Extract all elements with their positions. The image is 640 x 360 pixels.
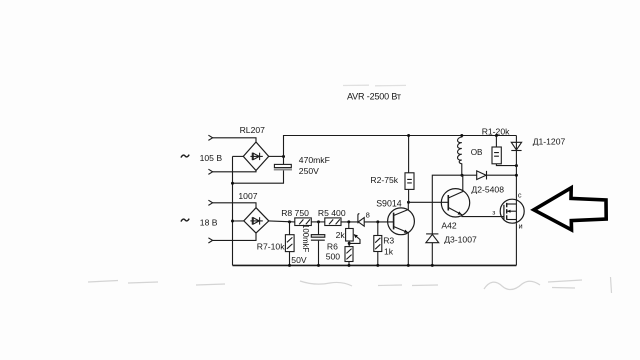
- bridge 1007 internal diode: [250, 217, 262, 224]
- AC input terminal arrow (low bridge, upper): [208, 200, 212, 205]
- wire bridge1 plus corner to capacitor node: [269, 155, 284, 157]
- wire node to D3 corner: [432, 175, 462, 234]
- resistor R8 750 box: [295, 218, 312, 226]
- resistor R7-10k box: [285, 235, 294, 252]
- diode D2-5408 triangle: [477, 171, 486, 180]
- node dot D2/drain junction: [515, 174, 518, 177]
- node dot bus/capacitor rail: [231, 182, 234, 185]
- resistor R5 400 box: [325, 218, 341, 226]
- transistor Q2 collector: [448, 175, 463, 198]
- wire R7 branch: [289, 222, 291, 266]
- transistor Q1 S9014 circle: [388, 208, 415, 235]
- svg-text:1007: 1007: [238, 191, 257, 201]
- wire C2 branch upper: [318, 222, 320, 235]
- MOSFET body stub: [507, 210, 517, 212]
- wire R3 branch upper: [377, 222, 379, 236]
- wire R3 to rail: [377, 252, 379, 266]
- MOSFET source stub: [507, 219, 517, 221]
- wire input4 to bridge 1007 bottom: [213, 233, 256, 240]
- wire C2 branch lower: [318, 241, 320, 266]
- wire left vertical bus: [232, 156, 234, 265]
- wire bridge1 minus corner to left bus: [233, 155, 244, 157]
- wire R8 to R5: [311, 221, 325, 223]
- transistor Q2 base bar: [447, 195, 449, 211]
- svg-text:R5 400: R5 400: [318, 208, 346, 218]
- wire bridge2 plus corner to R8: [269, 221, 295, 222]
- diode D1-1207 triangle: [511, 142, 521, 150]
- capacitor C1 470mkF top plate: [274, 164, 291, 167]
- svg-text:100mkF: 100mkF: [301, 224, 310, 252]
- node dot R7 top: [288, 220, 291, 223]
- faint erased-text smudge above title: [343, 84, 406, 87]
- node dot capacitor top: [282, 155, 285, 158]
- wire diode to base: [364, 221, 393, 223]
- MOSFET body arrowhead: [507, 210, 511, 213]
- diode D8 cathode bar with hook: [358, 214, 360, 224]
- svg-text:R2-75k: R2-75k: [370, 175, 398, 185]
- node dot R1/D1 junction: [515, 164, 518, 167]
- wire D3 anode to rail: [431, 243, 433, 266]
- wire source to rail: [515, 223, 517, 265]
- node dot rail D3: [431, 264, 434, 267]
- resistor R1-20k box: [492, 147, 501, 164]
- MOSFET channel segments: [506, 203, 508, 220]
- svg-text:AVR -2500 Вт: AVR -2500 Вт: [347, 92, 401, 102]
- diode D2-5408 cathode bar: [486, 171, 488, 180]
- bridge rectifier RL207 diamond: [243, 142, 268, 171]
- wire collector node to A42 base: [409, 201, 449, 203]
- wire drain line vertical: [515, 136, 517, 224]
- capacitor C1 470mkF bottom plate (gray): [274, 169, 292, 171]
- diode D8 triangle: [358, 218, 364, 227]
- wire input1 to bridge RL207 top: [213, 138, 256, 142]
- node dot wiper junction: [348, 242, 351, 245]
- wire R2 top from rail: [408, 136, 410, 173]
- svg-text:R6: R6: [327, 241, 338, 251]
- svg-text:Д2-5408: Д2-5408: [471, 184, 504, 194]
- resistor R8 hatch: [299, 219, 310, 224]
- bridge RL207 internal diode: [250, 153, 262, 160]
- svg-text:RL207: RL207: [240, 125, 266, 135]
- bridge rectifier 1007 diamond: [244, 208, 269, 233]
- transistor Q1 emitter arrowhead: [404, 230, 408, 233]
- wire D2 cathode to drain line: [487, 174, 517, 176]
- resistor R1 value dashes: [494, 153, 499, 157]
- svg-text:с: с: [518, 190, 522, 199]
- AC input terminal arrow (top bridge, upper): [208, 135, 212, 140]
- svg-text:A42: A42: [441, 221, 457, 231]
- svg-text:S9014: S9014: [376, 199, 402, 209]
- node dot rail C2: [317, 264, 320, 267]
- transistor Q2 emitter: [448, 208, 504, 217]
- wire R1 bottom to drain line: [496, 164, 516, 166]
- inductor OV field winding coil: [458, 136, 462, 176]
- svg-text:8: 8: [366, 211, 370, 220]
- node dot pot branch: [347, 220, 350, 223]
- big hollow arrow pointing left: [534, 188, 606, 230]
- transistor Q1 collector: [394, 202, 409, 215]
- resistor R7 hatch: [287, 237, 293, 248]
- svg-text:и: и: [519, 221, 523, 230]
- node dot rail R7: [288, 264, 291, 267]
- resistor R2 value dashes: [407, 179, 412, 183]
- MOSFET drain stub: [507, 203, 517, 205]
- wire R2 bottom to collector node: [408, 189, 410, 202]
- wire node to D2 anode: [462, 174, 477, 176]
- node dot rail R6: [348, 264, 351, 267]
- node dot C2 top: [317, 220, 320, 223]
- svg-text:18 В: 18 В: [200, 217, 218, 227]
- svg-text:50V: 50V: [291, 255, 307, 265]
- capacitor C2 100mkF top plate: [311, 235, 325, 238]
- resistor R3 hatch: [375, 238, 380, 249]
- wire input2 to bridge RL207 bottom: [213, 171, 256, 172]
- node dot R2 rail: [407, 134, 410, 137]
- svg-text:500: 500: [326, 251, 341, 261]
- potentiometer wiper arrowhead: [354, 234, 358, 238]
- transistor Q2 emitter arrowhead: [458, 211, 462, 214]
- diode D3-1007 triangle: [426, 234, 439, 242]
- node dot coil top rail: [460, 134, 463, 137]
- svg-text:105 В: 105 В: [200, 153, 223, 163]
- tilde AC symbol upper: [181, 155, 189, 158]
- node dot bus/bridge2: [231, 220, 234, 223]
- MOSFET gate bar: [503, 205, 505, 221]
- tilde AC symbol lower: [181, 219, 189, 222]
- resistor R3 box: [374, 236, 382, 252]
- wire R1 top: [495, 136, 497, 148]
- transistor Q1 emitter: [394, 227, 409, 266]
- MOSFET Q3 circle: [500, 199, 524, 223]
- svg-text:R3: R3: [383, 235, 394, 245]
- wire R6 to rail: [348, 262, 350, 266]
- svg-text:з: з: [492, 209, 495, 216]
- node dot rail Q1 emitter: [407, 264, 410, 267]
- transistor Q2 A42 circle: [441, 189, 469, 217]
- node dot R1 rail: [495, 134, 498, 137]
- potentiometer 2k box: [346, 229, 354, 242]
- svg-text:ОВ: ОВ: [471, 148, 483, 157]
- resistor R2-75k box: [405, 173, 414, 190]
- svg-text:Д3-1007: Д3-1007: [444, 235, 477, 245]
- wire bridge2 minus corner to bus: [233, 220, 244, 222]
- diode D1-1207 cathode bar: [511, 150, 521, 152]
- wire pot branch: [348, 222, 350, 229]
- node dot R3 top: [376, 220, 379, 223]
- node dot rail R3: [376, 264, 379, 267]
- wire top rail riser and top rail: [284, 136, 517, 165]
- resistor R6 hatch: [346, 249, 351, 260]
- transistor Q1 base bar: [393, 213, 395, 230]
- resistor R5 hatch: [329, 219, 340, 224]
- potentiometer wiper arm: [349, 234, 360, 243]
- resistor R6 500 box: [345, 247, 353, 262]
- AC input terminal arrow (top bridge, lower): [208, 169, 212, 174]
- wire bottom ground rail: [233, 264, 517, 266]
- capacitor C2 100mkF bottom plate: [311, 240, 325, 241]
- wire input3 to bridge 1007 top: [213, 203, 256, 208]
- faint erased-text smudges below circuit: [88, 277, 612, 293]
- wire capacitor bottom to bus: [233, 171, 284, 184]
- svg-text:R7-10k: R7-10k: [257, 242, 285, 252]
- svg-text:250V: 250V: [299, 166, 319, 176]
- svg-text:R8 750: R8 750: [281, 208, 309, 218]
- wire R5 to diode: [341, 221, 358, 223]
- svg-text:1k: 1k: [384, 247, 394, 257]
- svg-text:Д1-1207: Д1-1207: [533, 137, 566, 147]
- diode D3-1007 cathode bar: [426, 233, 438, 235]
- wire pot to R6: [348, 241, 350, 247]
- svg-text:2k: 2k: [336, 230, 346, 240]
- AC input terminal arrow (low bridge, lower): [208, 238, 212, 243]
- svg-text:470mkF: 470mkF: [299, 155, 330, 165]
- node dot coil/collector/D2: [461, 174, 464, 177]
- node dot collector/R2: [407, 201, 410, 204]
